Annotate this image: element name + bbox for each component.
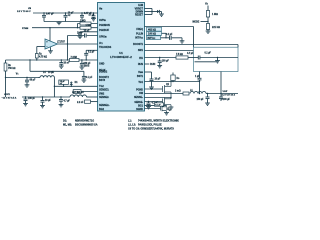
svg-text:ITH: ITH (139, 57, 143, 60)
svg-text:SENSE2+: SENSE2+ (99, 104, 109, 107)
svg-text:7.5 kΩ: 7.5 kΩ (176, 54, 183, 56)
inductor L4 (38, 71, 54, 97)
wire mid row y86.3 (54, 85, 97, 87)
svg-text:SENSE2-: SENSE2- (99, 96, 109, 99)
IC U1 LTC4060EUF-2 body (98, 3, 145, 112)
resistor RA 4.75k (35, 52, 47, 60)
resistor R8 221k (206, 24, 220, 30)
svg-text:L2, L3:: L2, L3: (128, 124, 136, 127)
svg-text:M1, M2:: M1, M2: (63, 124, 72, 127)
resistor R1 1M (78, 20, 98, 25)
capacitor C22 10nF comp (59, 59, 70, 68)
svg-text:0.1 µF: 0.1 µF (88, 52, 95, 54)
resistor R10 7.5k (176, 54, 198, 59)
node VIN label (17, 8, 32, 13)
svg-text:2 mΩ: 2 mΩ (175, 90, 181, 92)
svg-text:1 MΩ: 1 MΩ (86, 25, 92, 27)
svg-text:1 MΩ: 1 MΩ (212, 13, 218, 16)
svg-text:3.3 µH: 3.3 µH (77, 92, 84, 94)
capacitor C6 10nF feedback (77, 33, 87, 38)
svg-text:10 µF: 10 µF (45, 100, 51, 102)
ground op-amp (48, 47, 53, 53)
resistor R3 10k (73, 90, 97, 94)
wire op-amp minus input (37, 47, 45, 54)
transistor Q3 below chip (145, 106, 173, 113)
wire VSNS row (145, 71, 152, 73)
node VOUT label (222, 91, 236, 97)
svg-text:LT1797: LT1797 (57, 41, 65, 43)
svg-text:10 nF: 10 nF (77, 33, 84, 35)
resistor R7 1M (206, 11, 218, 18)
resistor RB 750k (4, 60, 16, 97)
resistor R6 100k (147, 32, 167, 36)
svg-text:RUN: RUN (138, 63, 143, 66)
svg-text:PEAK: PEAK (99, 69, 106, 72)
svg-text:4.7 µF: 4.7 µF (89, 14, 95, 17)
svg-text:FREQ: FREQ (136, 28, 143, 31)
ground Vx divider (206, 31, 211, 33)
svg-text:0.1 µF: 0.1 µF (205, 53, 212, 55)
svg-text:10 nF: 10 nF (84, 30, 91, 32)
box snubber module (194, 47, 239, 71)
wire VIN rail (33, 12, 98, 14)
svg-text:1 MΩ: 1 MΩ (80, 20, 86, 22)
svg-text:×100 µF: ×100 µF (222, 98, 231, 101)
node VC (5, 77, 6, 78)
capacitor C10 10uF (40, 96, 51, 108)
capacitor C7 68pF (25, 77, 36, 87)
svg-text:VOUT: VOUT (223, 91, 228, 93)
svg-text:RUN: RUN (150, 63, 155, 66)
capacitor C5 10nF (78, 30, 98, 38)
IC right pin labels (133, 4, 144, 111)
capacitor C11 4.7uF (59, 96, 71, 107)
capacitor C24 0.1uF upper (84, 50, 97, 60)
capacitor C17 1uF (195, 72, 202, 95)
capacitor C19 150uF out (197, 94, 210, 106)
wire BOOST1 row (145, 45, 239, 48)
svg-text:150 µF: 150 µF (197, 99, 205, 101)
wire ITH row (145, 57, 177, 59)
svg-text:BSC026N08NS5 SA: BSC026N08NS5 SA (75, 124, 98, 127)
capacitor C9 100uF (23, 96, 36, 106)
capacitor module 10uF x2 (59, 80, 69, 87)
capacitor C23 330pF (80, 59, 92, 69)
wire L1 to out (206, 93, 238, 95)
svg-text:TG1: TG1 (138, 81, 143, 84)
svg-text:3.5 V TO 60 V: 3.5 V TO 60 V (17, 11, 31, 13)
svg-text:100 µF: 100 µF (28, 98, 36, 100)
diode D1 (70, 82, 78, 88)
wire VC row (6, 77, 39, 79)
ground INTVCC (180, 41, 185, 43)
svg-text:SGND: SGND (136, 108, 143, 111)
svg-text:GND: GND (99, 63, 105, 66)
wire RTN rail (32, 27, 98, 29)
svg-text:PLLIN: PLLIN (136, 33, 143, 36)
ground caps rail (57, 22, 62, 25)
wire feedback to cap row (68, 36, 98, 61)
capacitor C13 0.1uF in box (195, 53, 220, 63)
svg-text:0.1 µF: 0.1 µF (86, 77, 93, 79)
svg-text:PGDMON: PGDMON (99, 24, 110, 27)
transistor Q1 (145, 82, 172, 98)
wire cap bottom rail (44, 21, 82, 23)
inductor L1 (190, 90, 206, 94)
capacitor C8 0.1uF (82, 71, 93, 82)
svg-text:7.15M: 7.15M (71, 57, 77, 59)
svg-text:402 kΩ: 402 kΩ (148, 28, 156, 31)
node RUN flag (145, 63, 156, 66)
svg-text:68 pF: 68 pF (30, 79, 37, 81)
capacitor C1 0.47uF (42, 13, 54, 22)
wire INTVCC row (161, 33, 183, 41)
capacitor C25 0.1uF below chip (145, 103, 167, 107)
capacitor C14 4.7uF (187, 52, 238, 60)
svg-text:750 kΩ: 750 kΩ (8, 68, 16, 70)
wire SENSE+ row (145, 97, 172, 99)
svg-text:SW1: SW1 (138, 49, 144, 52)
capacitor C20 100uF out (219, 94, 230, 102)
svg-text:0.1 µF: 0.1 µF (155, 105, 161, 107)
svg-text:BST1: BST1 (137, 75, 144, 78)
inductor L2 in rail (70, 92, 86, 97)
resistor R2 1M (80, 25, 91, 29)
ground Q3 (164, 113, 169, 115)
wire op-amp output (58, 43, 98, 45)
transistor Q2 (145, 98, 172, 111)
svg-text:BIAS: BIAS (84, 64, 90, 67)
svg-text:RESET: RESET (135, 14, 144, 17)
wire module to VOUT (220, 72, 222, 94)
svg-text:BG2: BG2 (99, 108, 105, 111)
resistor R5 402k (147, 27, 162, 31)
wire MODE (201, 21, 209, 23)
svg-text:0.1 µF: 0.1 µF (166, 34, 173, 36)
capacitor C4 4.7uF (89, 13, 96, 21)
resistor RG (171, 73, 180, 83)
wire TG row (145, 81, 200, 83)
svg-text:4.7 µF: 4.7 µF (187, 52, 194, 55)
capacitor C2 10uF x2 (64, 13, 75, 22)
svg-text:4.7 µF: 4.7 µF (64, 99, 71, 102)
svg-text:−12 V AT 0.5 A: −12 V AT 0.5 A (2, 97, 17, 100)
svg-text:RTNIN: RTNIN (22, 28, 29, 30)
capacitor C3 0.47uF (80, 12, 92, 21)
svg-text:MODE: MODE (193, 22, 200, 24)
node VOUT2 label (2, 94, 17, 99)
svg-text:10 nF: 10 nF (64, 62, 71, 64)
svg-text:2.2 nF: 2.2 nF (77, 102, 84, 104)
svg-text:C6 TO C9: GRM32ER71A476K, MURA: C6 TO C9: GRM32ER71A476K, MURATA (128, 128, 174, 131)
svg-text:SENSE3-: SENSE3- (99, 89, 109, 92)
svg-text:4.75 kΩ: 4.75 kΩ (39, 56, 47, 59)
svg-text:10 µH: 10 µH (48, 72, 54, 74)
svg-text:TRACK/SS: TRACK/SS (99, 46, 112, 49)
svg-text:D1:: D1: (63, 120, 67, 123)
notes parts list (63, 120, 179, 131)
IC left pin labels (99, 8, 112, 112)
svg-text:1 µF: 1 µF (195, 76, 200, 78)
svg-text:NBR0530W1T1G: NBR0530W1T1G (75, 120, 94, 123)
capacitor C12 0.1uF (166, 34, 173, 40)
wire Vx divider (207, 6, 209, 32)
wire right top pin bus (145, 9, 153, 15)
wire SW row (145, 93, 184, 95)
wire 0.1uF lower row (30, 60, 84, 71)
svg-text:VOUT2: VOUT2 (4, 94, 10, 96)
svg-text:×2: ×2 (60, 82, 62, 85)
resistor R4 10k (77, 100, 98, 104)
svg-text:10 µF: 10 µF (155, 79, 161, 81)
svg-text:SENSE+: SENSE+ (134, 96, 143, 99)
svg-text:PA0510.XXX, PULSE: PA0510.XXX, PULSE (138, 124, 162, 127)
wire SYNC row to module (145, 27, 194, 48)
svg-text:221 kΩ: 221 kΩ (212, 26, 220, 29)
capacitor C21 4.7uF bottom (146, 101, 158, 109)
ground Q2 source (169, 107, 174, 109)
svg-text:L1:: L1: (128, 120, 132, 123)
svg-text:744363047D, WÜRTH ELEKTRONIK: 744363047D, WÜRTH ELEKTRONIK (138, 120, 179, 123)
svg-text:BST3: BST3 (99, 79, 106, 82)
wire op-amp supply to RTN (49, 28, 51, 41)
svg-text:PGDBUF: PGDBUF (99, 29, 110, 32)
junction dots on VIN rail (43, 12, 94, 13)
wire RTN to R1 (77, 24, 79, 28)
svg-text:BOOST1: BOOST1 (133, 43, 144, 46)
svg-text:100 µF: 100 µF (162, 60, 170, 62)
svg-text:LTC4060EUF-2: LTC4060EUF-2 (110, 55, 132, 59)
svg-text:0.47 µF: 0.47 µF (46, 13, 54, 16)
resistor Rsense 2mOhm (175, 90, 189, 95)
wire SW1 row (145, 50, 194, 52)
svg-text:100 kΩ: 100 kΩ (148, 33, 156, 36)
node INTVCC flag (147, 36, 161, 40)
diode D4 (152, 10, 164, 17)
wire comp rail (6, 59, 98, 61)
wire VOUT2 rail (22, 96, 98, 98)
capacitor C18 10uF (149, 72, 161, 89)
resistor R13 7.15M (69, 57, 79, 62)
svg-text:3.3 V AT 10 A: 3.3 V AT 10 A (222, 94, 236, 97)
op-amp U2 LT1797 (45, 39, 65, 49)
capacitor C15 100uF (157, 57, 169, 68)
